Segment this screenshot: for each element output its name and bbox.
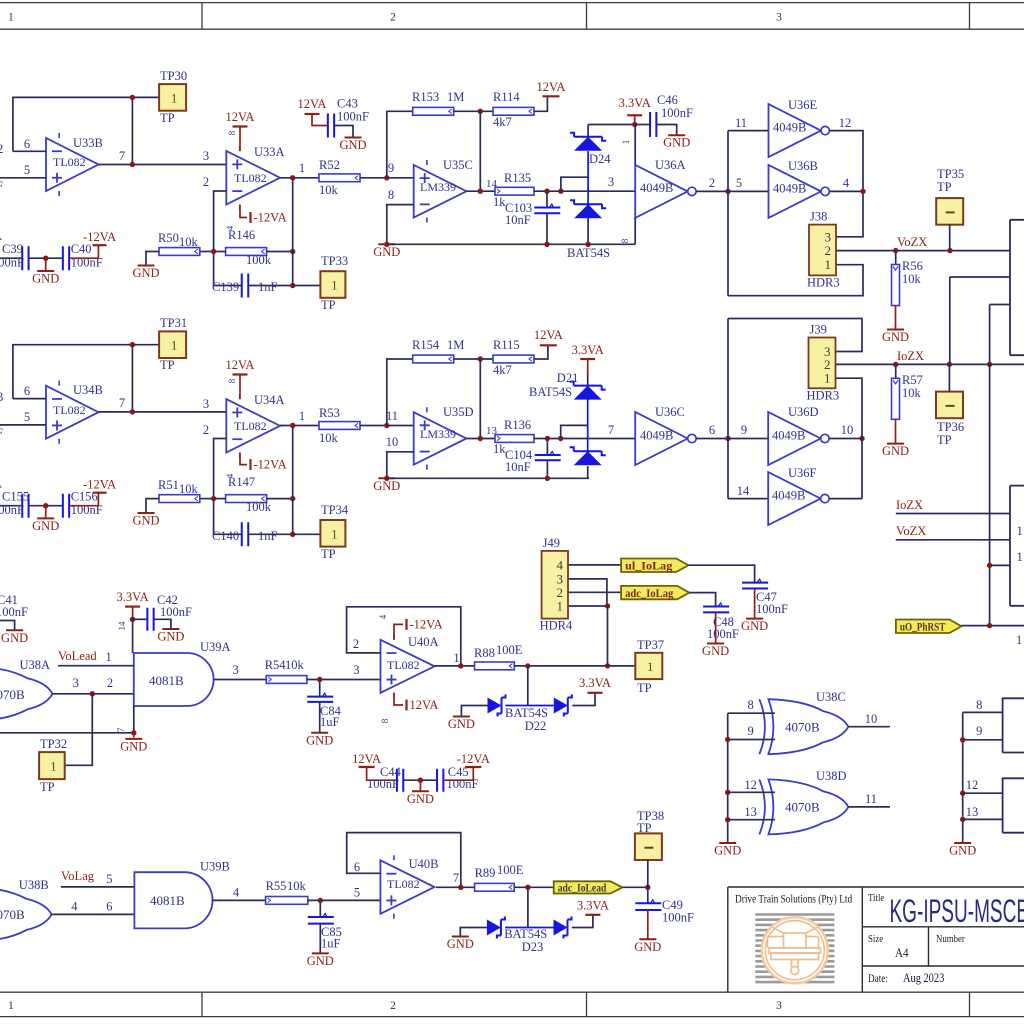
wire jog to D21 xyxy=(561,425,588,438)
right partial block lower (pins 12 13) xyxy=(1003,778,1024,832)
wire J49 pin3 xyxy=(568,579,607,606)
wire U33A output xyxy=(280,177,319,179)
wire to TP34 xyxy=(293,533,321,535)
svg-text:12VA: 12VA xyxy=(226,110,255,124)
wire right rail v1 xyxy=(949,277,951,364)
resistor R146 xyxy=(226,248,267,256)
wire J38 pin2 VoZX xyxy=(836,250,1010,252)
capacitor C156 xyxy=(63,494,69,518)
svg-text:Title: Title xyxy=(868,892,885,904)
resistor R53 xyxy=(319,422,360,430)
svg-text:GND: GND xyxy=(714,844,741,858)
test point TP36 xyxy=(936,392,963,419)
svg-text:TL082: TL082 xyxy=(234,171,267,185)
power 3.3VA for D22 xyxy=(572,693,595,706)
ground for R51 xyxy=(146,499,159,513)
port ul_IoLag xyxy=(621,559,688,573)
wire right pins 12 13 xyxy=(963,792,1003,794)
svg-text:TL082: TL082 xyxy=(387,658,420,672)
wire TP32 stem xyxy=(65,694,93,766)
diode pair D23 BAT54S xyxy=(527,887,529,927)
svg-text:U36D: U36D xyxy=(788,405,819,419)
svg-text:R56: R56 xyxy=(902,259,923,273)
svg-text:1: 1 xyxy=(50,759,57,774)
svg-text:2: 2 xyxy=(107,676,113,690)
svg-text:2: 2 xyxy=(390,12,396,24)
node 3.3VA junction xyxy=(130,617,135,622)
svg-text:1nF: 1nF xyxy=(258,529,278,543)
node U33B out junction xyxy=(130,95,135,100)
svg-text:R114: R114 xyxy=(493,90,520,104)
svg-text:IoZX: IoZX xyxy=(897,349,924,363)
svg-text:GND: GND xyxy=(132,514,159,528)
inverter U36B xyxy=(769,165,822,218)
wire rail U36 row2 xyxy=(727,319,729,499)
svg-text:12VA: 12VA xyxy=(534,328,563,342)
capacitor C104 xyxy=(546,439,548,456)
wire U36B output 4 xyxy=(830,190,864,192)
svg-text:VoLag: VoLag xyxy=(61,869,95,883)
svg-text:GND: GND xyxy=(339,138,366,152)
wire U38D output 11 xyxy=(848,806,890,808)
capacitor C42 xyxy=(133,618,147,620)
capacitor C48 xyxy=(703,607,729,613)
wire R154 junction to U35D out xyxy=(479,359,481,439)
svg-text:8: 8 xyxy=(388,188,394,202)
svg-text:GND: GND xyxy=(882,330,909,344)
svg-text:U33A: U33A xyxy=(254,145,285,159)
resistor R135 xyxy=(495,187,534,195)
svg-text:Drive Train Solutions (Pty) Lt: Drive Train Solutions (Pty) Ltd xyxy=(735,894,853,906)
svg-text:GND: GND xyxy=(32,272,59,286)
svg-text:TP: TP xyxy=(321,547,336,561)
resistor R51 xyxy=(200,498,214,500)
svg-text:6: 6 xyxy=(709,423,715,437)
port adc_IoLead xyxy=(554,881,623,893)
ground under U35D xyxy=(378,477,395,479)
svg-text:100k: 100k xyxy=(246,253,272,267)
output U35D xyxy=(466,438,495,440)
svg-text:11: 11 xyxy=(386,409,398,423)
wire J49 pin1 xyxy=(568,605,608,607)
svg-text:3: 3 xyxy=(353,663,359,677)
svg-text:J49: J49 xyxy=(543,536,560,550)
wire R153 junction to U35C out xyxy=(479,111,481,191)
svg-text:IoZX: IoZX xyxy=(896,498,923,512)
svg-text:C140: C140 xyxy=(212,529,239,543)
svg-text:U40A: U40A xyxy=(408,635,439,649)
svg-text:12: 12 xyxy=(966,778,979,792)
svg-text:9: 9 xyxy=(388,161,394,175)
ground right rail xyxy=(954,842,971,844)
svg-text:5: 5 xyxy=(24,163,30,177)
feedback R153 xyxy=(387,111,413,178)
svg-text:D24: D24 xyxy=(589,152,611,166)
xor gate U38B partial xyxy=(0,887,52,942)
svg-text:TP31: TP31 xyxy=(160,316,187,330)
wire TP31 stem xyxy=(131,345,133,412)
svg-text:1: 1 xyxy=(621,140,631,145)
svg-text:2: 2 xyxy=(353,637,359,651)
svg-text:4049B: 4049B xyxy=(640,429,673,443)
svg-text:GND: GND xyxy=(407,792,434,806)
svg-text:adc_IoLead: adc_IoLead xyxy=(558,881,607,895)
svg-text:J39: J39 xyxy=(810,323,827,337)
svg-text:3: 3 xyxy=(825,229,832,244)
svg-text:4: 4 xyxy=(378,614,388,619)
wire U33A pin2 xyxy=(214,191,227,286)
svg-text:10k: 10k xyxy=(319,183,339,197)
svg-text:GND: GND xyxy=(447,937,474,951)
svg-text:GND: GND xyxy=(307,954,334,968)
svg-text:12: 12 xyxy=(744,778,757,792)
svg-text:R53: R53 xyxy=(319,406,340,420)
op-amp U40B xyxy=(380,860,434,914)
power 3.3VA row1 xyxy=(634,115,636,124)
wire U38B output xyxy=(52,913,135,915)
wire U34B pin5 stub xyxy=(0,424,46,426)
test point TP33 xyxy=(320,271,345,298)
svg-text:A4: A4 xyxy=(895,945,908,960)
op-amp U34B xyxy=(46,386,99,439)
op-amp U40A xyxy=(381,640,435,693)
svg-text:Size: Size xyxy=(868,933,884,945)
wire J49 pin2 to adc_IoLag xyxy=(568,591,621,593)
svg-text:4: 4 xyxy=(233,886,240,900)
wire U38D inputs xyxy=(728,791,775,793)
svg-text:4070B: 4070B xyxy=(785,800,820,815)
capacitor C84 xyxy=(319,680,321,697)
svg-text:8: 8 xyxy=(227,378,237,383)
svg-text:100nF: 100nF xyxy=(0,605,28,619)
ground C39/C40 xyxy=(45,258,47,271)
svg-text:4070B: 4070B xyxy=(0,687,25,702)
power 12VA for R115 xyxy=(534,345,548,359)
wire J39 pin1 xyxy=(836,378,863,498)
wire U40B output xyxy=(436,886,475,888)
svg-text:GND: GND xyxy=(306,733,333,747)
svg-text:100nF: 100nF xyxy=(707,627,739,641)
svg-text:A: A xyxy=(0,477,2,491)
right partial block upper (pins 8 9) xyxy=(1003,698,1024,752)
wire TP30 stem xyxy=(131,97,133,164)
svg-text:2: 2 xyxy=(824,357,831,372)
svg-text:1uF: 1uF xyxy=(320,715,340,729)
svg-text:R52: R52 xyxy=(319,158,340,172)
svg-text:R147: R147 xyxy=(228,475,255,489)
svg-text:4049B: 4049B xyxy=(640,181,673,195)
svg-text:4: 4 xyxy=(843,176,850,190)
svg-text:4: 4 xyxy=(71,900,78,914)
wire C155 to GND xyxy=(29,505,63,507)
svg-text:TP32: TP32 xyxy=(40,737,67,751)
svg-text:U38C: U38C xyxy=(816,690,846,704)
svg-text:3.3VA: 3.3VA xyxy=(117,590,149,604)
svg-text:2: 2 xyxy=(203,423,209,437)
svg-text:10k: 10k xyxy=(179,235,199,249)
svg-text:-12VA: -12VA xyxy=(410,617,443,631)
test point TP37 xyxy=(635,653,662,679)
resistor R154 xyxy=(413,355,454,363)
wire net from left at GND junction xyxy=(0,732,134,734)
svg-text:HDR3: HDR3 xyxy=(807,388,840,402)
svg-text:-12VA: -12VA xyxy=(254,458,287,472)
capacitor C140 xyxy=(242,522,249,546)
svg-text:1: 1 xyxy=(299,409,305,423)
svg-text:12: 12 xyxy=(839,116,852,130)
svg-text:TP34: TP34 xyxy=(321,503,349,517)
wire U34B feedback loop xyxy=(13,345,132,399)
svg-text:TP35: TP35 xyxy=(937,167,964,181)
svg-text:D23: D23 xyxy=(522,940,544,954)
svg-text:TP30: TP30 xyxy=(160,69,187,83)
svg-text:5: 5 xyxy=(24,410,30,424)
wire U39A power rail xyxy=(132,619,134,653)
power -12VA for U33A xyxy=(240,205,247,218)
svg-text:GND: GND xyxy=(882,444,909,458)
svg-text:U36E: U36E xyxy=(788,98,818,112)
svg-text:1nF: 1nF xyxy=(258,280,278,294)
AND gate U39B xyxy=(134,872,212,928)
svg-text:U35C: U35C xyxy=(443,158,473,172)
wire U34A pin2 xyxy=(214,439,227,535)
svg-text:1M: 1M xyxy=(447,338,464,352)
resistor R153 xyxy=(413,107,454,115)
inverter U36D xyxy=(768,412,821,465)
svg-text:8: 8 xyxy=(976,698,982,712)
diode pair D21 BAT54S xyxy=(574,386,602,400)
right block lower partial xyxy=(1010,486,1024,606)
svg-text:10k: 10k xyxy=(319,431,339,445)
svg-text:-12VA: -12VA xyxy=(83,230,116,244)
op-amp U33A xyxy=(226,151,280,205)
svg-text:GND: GND xyxy=(1,631,28,645)
wire VoZX label rail xyxy=(896,539,1010,541)
svg-text:R51: R51 xyxy=(158,478,179,492)
svg-text:TP33: TP33 xyxy=(321,254,348,268)
svg-text:U34A: U34A xyxy=(254,393,285,407)
svg-text:8: 8 xyxy=(380,718,390,723)
svg-text:U39B: U39B xyxy=(200,860,230,874)
svg-text:10k: 10k xyxy=(902,386,922,400)
svg-text:10k: 10k xyxy=(179,482,199,496)
svg-text:1: 1 xyxy=(8,1000,14,1012)
wire U36D output 10 xyxy=(829,438,862,440)
xor gate U38D xyxy=(768,779,848,834)
svg-text:Number: Number xyxy=(936,933,965,945)
capacitor C47 xyxy=(742,583,768,589)
svg-text:R89: R89 xyxy=(475,866,496,880)
svg-text:R88: R88 xyxy=(474,646,495,660)
svg-text:7: 7 xyxy=(119,396,125,410)
svg-text:3: 3 xyxy=(73,676,79,690)
svg-text:12VA: 12VA xyxy=(352,752,381,766)
svg-text:13: 13 xyxy=(744,805,757,819)
ground C155/C156 xyxy=(45,506,47,519)
svg-text:3: 3 xyxy=(203,397,209,411)
wire J39 pin2 IoZX rail xyxy=(836,363,1024,365)
wire IoZX label rail xyxy=(896,513,1010,515)
svg-text:R50: R50 xyxy=(158,231,179,245)
svg-text:R57: R57 xyxy=(902,373,923,387)
resistor R55 xyxy=(266,897,308,905)
svg-text:BAT54S: BAT54S xyxy=(504,927,547,941)
svg-text:C155: C155 xyxy=(2,490,29,504)
svg-text:R153: R153 xyxy=(412,90,439,104)
wire C39 to GND xyxy=(29,257,63,259)
title block frame xyxy=(728,887,1024,992)
sheet border top band xyxy=(0,3,1024,30)
svg-text:8: 8 xyxy=(747,698,753,712)
wire J49 pin1 down to TP37 net xyxy=(607,606,609,666)
wire U39A below to GND xyxy=(133,706,135,733)
svg-text:TP: TP xyxy=(40,780,55,794)
svg-text:TP: TP xyxy=(937,433,952,447)
op-amp U33B xyxy=(46,138,99,191)
capacitor C45 xyxy=(437,769,443,792)
ground C43 xyxy=(334,126,353,138)
svg-text:VoLead: VoLead xyxy=(58,649,97,663)
ground for D23 xyxy=(460,928,487,937)
svg-text:4049B: 4049B xyxy=(773,182,806,196)
svg-text:J38: J38 xyxy=(810,210,827,224)
wire U38C output 10 xyxy=(848,726,890,728)
AND gate U39A xyxy=(134,653,214,706)
resistor R114 xyxy=(493,107,534,115)
svg-text:5: 5 xyxy=(354,886,360,900)
svg-text:C43: C43 xyxy=(337,97,358,111)
svg-text:U35D: U35D xyxy=(443,405,474,419)
svg-text:1: 1 xyxy=(647,659,654,674)
svg-text:100E: 100E xyxy=(496,643,523,657)
svg-text:VoZX: VoZX xyxy=(897,235,927,249)
svg-text:GND: GND xyxy=(132,266,159,280)
svg-text:3: 3 xyxy=(203,149,209,163)
svg-text:2: 2 xyxy=(709,176,715,190)
resistor R54 xyxy=(266,676,307,684)
svg-text:TL082: TL082 xyxy=(234,419,267,433)
svg-text:TP: TP xyxy=(321,298,336,312)
wire adc_IoLag to C48 xyxy=(689,593,715,607)
svg-text:U36A: U36A xyxy=(655,158,686,172)
capacitor C139 xyxy=(242,274,249,298)
svg-text:4049B: 4049B xyxy=(772,429,805,443)
svg-text:12VA: 12VA xyxy=(537,80,566,94)
svg-text:12VA: 12VA xyxy=(410,698,439,712)
svg-text:10k: 10k xyxy=(287,879,307,893)
svg-text:100nF: 100nF xyxy=(367,777,399,791)
power -12VA for C156 xyxy=(69,493,98,506)
svg-text:U38A: U38A xyxy=(20,658,51,672)
svg-text:6: 6 xyxy=(106,900,112,914)
power 3.3VA for D21 xyxy=(580,358,595,360)
svg-text:3.3VA: 3.3VA xyxy=(572,343,604,357)
right block upper partial xyxy=(1010,220,1024,355)
node R146 junctions xyxy=(211,249,216,254)
inverter U36A xyxy=(634,125,636,165)
svg-text:U36B: U36B xyxy=(788,159,818,173)
svg-text:100nF: 100nF xyxy=(756,602,788,616)
svg-text:1: 1 xyxy=(824,371,831,386)
comparator U35D xyxy=(414,412,467,465)
wire right pins 8 9 xyxy=(963,711,1003,713)
wire U36F output 15 xyxy=(829,498,862,500)
power -12VA for C40 xyxy=(69,245,98,258)
svg-text:7: 7 xyxy=(608,423,614,437)
svg-text:9: 9 xyxy=(976,724,982,738)
wire U33A output vertical xyxy=(292,178,294,286)
svg-text:1M: 1M xyxy=(447,90,464,104)
wire jog to D24 xyxy=(561,177,588,191)
svg-text:A: A xyxy=(0,229,2,243)
svg-text:10: 10 xyxy=(841,423,854,437)
svg-text:1: 1 xyxy=(299,161,305,175)
svg-text:4049B: 4049B xyxy=(773,121,806,135)
power -12VA for C45 xyxy=(443,767,473,780)
svg-text:1: 1 xyxy=(1016,633,1022,647)
svg-text:4070B: 4070B xyxy=(0,907,25,922)
power -12VA U40A xyxy=(394,624,403,639)
test point TP30 xyxy=(159,84,186,111)
power 12VA for U34A xyxy=(239,375,241,400)
svg-text:LM339: LM339 xyxy=(420,427,456,441)
svg-text:3: 3 xyxy=(0,390,3,404)
power 12VA for C43 xyxy=(305,113,320,115)
wire U39A output xyxy=(214,679,267,681)
comparator U35C xyxy=(414,165,467,218)
output U35C xyxy=(466,190,495,192)
svg-text:R135: R135 xyxy=(504,171,531,185)
wire U38A output xyxy=(53,693,134,695)
logo xyxy=(755,915,834,983)
svg-text:1: 1 xyxy=(1017,524,1023,538)
wire U39B output xyxy=(213,899,266,901)
svg-text:3: 3 xyxy=(608,175,614,189)
svg-text:adc_IoLag: adc_IoLag xyxy=(625,586,673,600)
resistor R52 xyxy=(319,174,360,182)
svg-text:R154: R154 xyxy=(412,338,440,352)
svg-text:2: 2 xyxy=(825,243,832,258)
svg-text:-12VA: -12VA xyxy=(457,752,490,766)
svg-text:7: 7 xyxy=(116,727,126,732)
port uO_PhRST xyxy=(896,620,962,634)
power 12VA for R114 xyxy=(534,96,547,111)
wire U35D pin10 xyxy=(387,452,414,479)
svg-text:C139: C139 xyxy=(212,280,239,294)
sheet border bottom band xyxy=(0,992,1024,1016)
xor gate U38C xyxy=(768,699,848,754)
svg-text:1: 1 xyxy=(331,526,338,541)
svg-text:4081B: 4081B xyxy=(150,893,185,908)
resistor R57 xyxy=(895,364,897,378)
svg-text:LM339: LM339 xyxy=(420,180,456,194)
svg-text:6: 6 xyxy=(24,384,30,398)
svg-text:BAT54S: BAT54S xyxy=(567,246,610,260)
wire top loop to J39 pin3 xyxy=(728,319,862,352)
test point TP38 xyxy=(635,833,662,860)
svg-text:R115: R115 xyxy=(493,338,520,352)
svg-text:3.3VA: 3.3VA xyxy=(579,676,611,690)
svg-text:F: F xyxy=(0,426,3,440)
svg-text:U34B: U34B xyxy=(73,383,103,397)
svg-text:D21: D21 xyxy=(557,371,579,385)
svg-text:KG-IPSU-MSCB: KG-IPSU-MSCB xyxy=(890,893,1024,929)
wire pin9 U36D xyxy=(728,438,768,440)
capacitor C46 xyxy=(635,124,650,126)
svg-text:4049B: 4049B xyxy=(772,489,805,503)
wire rail U36 row1 xyxy=(727,131,729,296)
wire U33B pin5 stub xyxy=(0,177,46,179)
